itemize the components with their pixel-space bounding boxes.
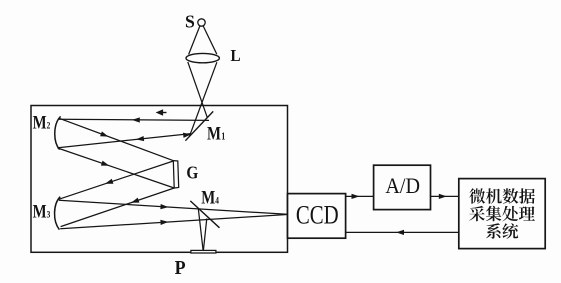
wire ray M2 top to grating top [59,118,173,160]
wire ray M2 bottom to M1 bottom [58,134,191,148]
text char 系 [486,223,501,239]
wire ray grating bottom to M3 bottom [61,188,175,227]
arrowhead on ray M2bottom-M1 right at M1 [183,132,192,138]
arrowhead computer back to CCD [396,230,404,235]
wire ray M4 to slit P left [198,209,203,251]
text char 理 [519,206,535,220]
source S circle [198,19,205,26]
svg-text:M4: M4 [201,187,219,208]
svg-text:M2: M2 [33,112,51,133]
mirror M1 [185,111,213,140]
svg-text:CCD: CCD [296,201,339,230]
wire short direction arrow tail [159,112,167,114]
svg-text:M1: M1 [207,123,226,144]
mirror M2 arc [55,116,61,149]
arrowhead on ray M2bottom to grating [101,161,110,169]
wire computer box back to CCD [346,231,459,233]
arrowhead on ray M3 bottom to CCD [160,219,168,225]
wire CCD to A/D [346,195,374,197]
wire ray M3 bottom to CCD [60,215,287,229]
wire ray M3 top to CCD [59,200,287,214]
svg-text:L: L [231,47,241,65]
wire ray M1 to M2 top [59,119,209,120]
text char 数 [503,188,519,203]
mirror M3 arc [55,197,61,230]
svg-text:M3: M3 [33,201,51,222]
CCD box [288,194,346,239]
arrowhead A/D to computer [439,194,447,199]
wire A/D to computer box [431,195,459,197]
svg-text:A/D: A/D [385,173,420,198]
text char 统 [502,223,518,239]
wire cone lower-left lens to M1 [188,62,208,118]
arrowhead on ray M3 top to CCD [160,204,168,210]
A/D box [374,165,431,209]
computer system box [459,179,545,249]
text char 集 [486,206,502,222]
slit P [191,250,216,253]
grating G [173,161,178,188]
arrowhead on ray M1 to M2 top [132,117,140,122]
wire ray M4 to slit P right [203,218,206,250]
monochromator housing box [31,106,288,253]
wire cone upper-left from S to lens [189,26,200,55]
arrowhead on ray grating to M3 bottom [130,198,139,206]
arrowhead on ray grating to M3 top [104,179,113,186]
arrowhead CCD to A/D [352,194,360,199]
arrowhead on ray M2top to grating [100,131,109,139]
wire cone upper-right from S to lens [203,26,217,54]
arrowhead short direction arrow [156,109,164,115]
lens L ellipse [186,53,219,62]
text char 采 [469,206,485,221]
svg-text:G: G [186,162,198,182]
svg-text:S: S [185,12,195,32]
wire ray M2 bottom to grating bottom [58,148,175,188]
text char 处 [502,206,518,222]
wire ray grating top to M3 top [59,161,174,199]
wire cone lower-right lens to M1 [189,62,217,137]
svg-text:P: P [175,257,186,279]
text char 微 [469,188,485,203]
mirror M4 [190,201,219,228]
text char 机 [486,188,502,203]
text char 据 [519,188,535,203]
arrowhead on ray M2bottom-M1 left [136,136,144,142]
